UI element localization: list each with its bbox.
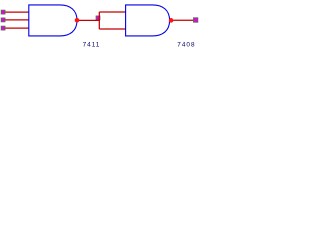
wire input A to U1 pin 1 — [5, 11, 28, 13]
junction dot at U1 output — [75, 18, 80, 23]
wire U1 output to junction — [77, 19, 100, 21]
AND gate U2 (7408, 2-input) — [126, 5, 170, 36]
wire branch to U2 input 2 — [99, 28, 126, 30]
output pin square — [194, 18, 198, 22]
svg-text:7411: 7411 — [83, 42, 101, 49]
background — [0, 0, 200, 56]
wire vertical branch at junction — [98, 12, 100, 29]
node terminal square (mid junction) — [96, 16, 100, 20]
svg-text:7408: 7408 — [177, 42, 195, 49]
input pin square 3 — [1, 26, 5, 30]
wire input B to U1 pin 2 — [5, 19, 28, 21]
wire input C to U1 pin 3 — [5, 27, 28, 29]
input pin square 2 — [1, 18, 5, 22]
wire branch to U2 input 1 — [99, 11, 125, 13]
wire U2 output to output pin — [171, 19, 194, 21]
AND gate U1 (7411, 3-input) — [29, 5, 77, 36]
input pin square 1 — [1, 10, 5, 14]
junction dot at U2 output — [169, 18, 174, 23]
